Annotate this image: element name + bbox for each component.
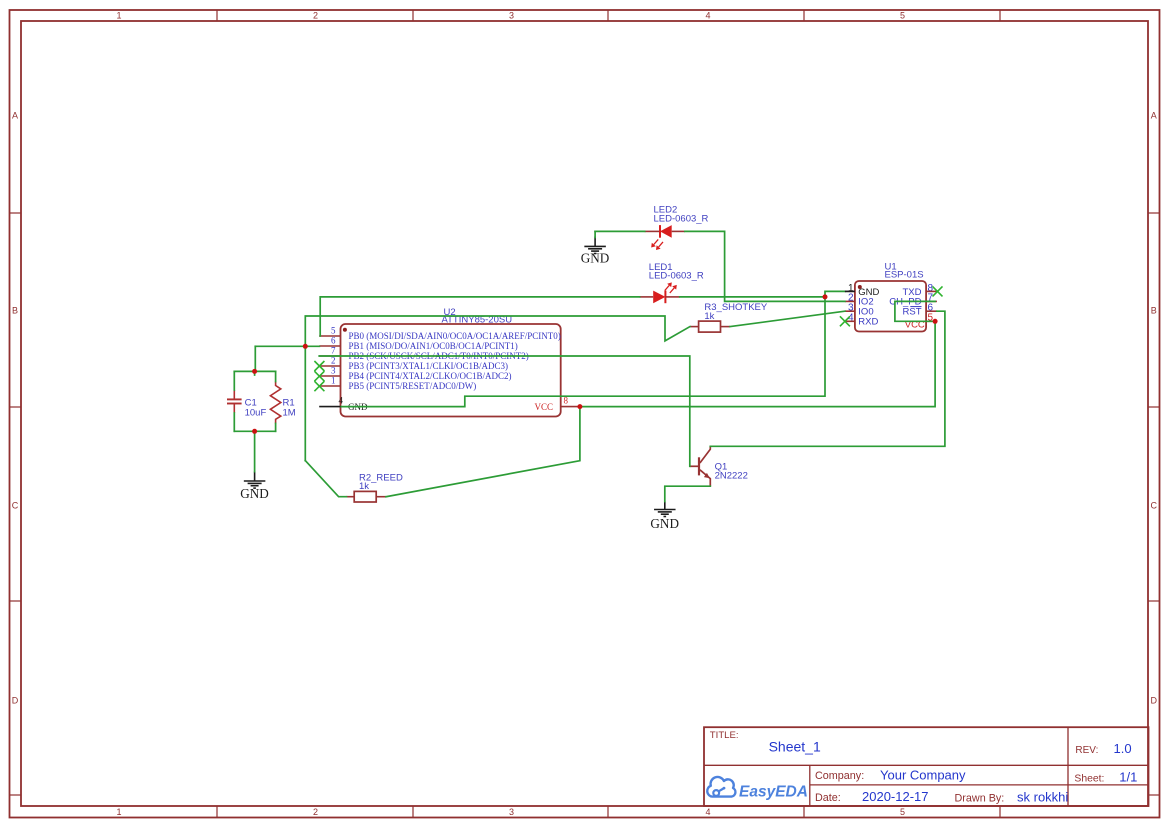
- svg-text:1: 1: [331, 375, 336, 385]
- svg-text:B: B: [12, 306, 18, 316]
- svg-text:PB0 (MOSI/DI/SDA/AIN0/OC0A/OC1: PB0 (MOSI/DI/SDA/AIN0/OC0A/OC1A/AREF/PCI…: [349, 331, 561, 341]
- svg-text:PB1 (MISO/DO/AIN1/OC0B/OC1A/PC: PB1 (MISO/DO/AIN1/OC0B/OC1A/PCINT1): [349, 341, 518, 351]
- svg-text:C: C: [1150, 501, 1157, 511]
- svg-text:REV:: REV:: [1075, 745, 1098, 756]
- svg-text:LED-0603_R: LED-0603_R: [649, 271, 704, 282]
- svg-text:D: D: [12, 696, 19, 706]
- svg-text:3: 3: [509, 11, 514, 21]
- svg-text:TITLE:: TITLE:: [710, 730, 739, 741]
- svg-text:Drawn By:: Drawn By:: [955, 792, 1005, 804]
- svg-text:LED-0603_R: LED-0603_R: [654, 213, 709, 224]
- svg-text:B: B: [1151, 306, 1157, 316]
- svg-text:2: 2: [313, 807, 318, 817]
- svg-text:PB4 (PCINT4/XTAL2/CLKO/OC1B/AD: PB4 (PCINT4/XTAL2/CLKO/OC1B/ADC2): [349, 371, 512, 381]
- svg-text:4: 4: [705, 11, 710, 21]
- svg-text:Your Company: Your Company: [880, 768, 966, 783]
- svg-text:1k: 1k: [359, 481, 369, 492]
- svg-text:PB3 (PCINT3/XTAL1/CLKI/OC1B/AD: PB3 (PCINT3/XTAL1/CLKI/OC1B/ADC3): [349, 361, 509, 371]
- svg-text:1M: 1M: [283, 408, 296, 419]
- svg-text:2020-12-17: 2020-12-17: [862, 789, 929, 804]
- svg-text:Date:: Date:: [815, 792, 841, 804]
- svg-text:5: 5: [900, 807, 905, 817]
- svg-text:3: 3: [331, 365, 336, 375]
- svg-text:Sheet_1: Sheet_1: [769, 739, 821, 755]
- svg-text:sk rokkhi: sk rokkhi: [1017, 790, 1068, 805]
- svg-text:GND: GND: [581, 251, 610, 266]
- svg-text:Sheet:: Sheet:: [1074, 774, 1104, 785]
- svg-text:GND: GND: [650, 516, 679, 531]
- svg-text:A: A: [12, 111, 18, 121]
- svg-text:1: 1: [116, 807, 121, 817]
- svg-text:10uF: 10uF: [245, 408, 267, 419]
- svg-text:1k: 1k: [704, 311, 714, 322]
- svg-text:1.0: 1.0: [1114, 741, 1132, 756]
- svg-text:5: 5: [900, 11, 905, 21]
- svg-text:RXD: RXD: [858, 317, 878, 328]
- svg-text:5: 5: [331, 325, 336, 335]
- svg-text:7: 7: [331, 345, 336, 355]
- svg-text:2: 2: [313, 11, 318, 21]
- svg-text:6: 6: [331, 335, 336, 345]
- svg-text:A: A: [1151, 111, 1157, 121]
- svg-text:RST: RST: [903, 307, 922, 318]
- svg-text:Company:: Company:: [815, 770, 864, 782]
- svg-text:2N2222: 2N2222: [715, 470, 748, 481]
- svg-text:1/1: 1/1: [1119, 770, 1137, 785]
- svg-text:4: 4: [339, 395, 344, 405]
- svg-text:C: C: [12, 501, 19, 511]
- svg-text:1: 1: [116, 11, 121, 21]
- svg-text:EasyEDA: EasyEDA: [739, 783, 808, 800]
- svg-text:3: 3: [509, 807, 514, 817]
- svg-text:2: 2: [331, 355, 336, 365]
- svg-text:VCC: VCC: [534, 402, 553, 412]
- svg-text:PB5 (PCINT5/RESET/ADC0/DW): PB5 (PCINT5/RESET/ADC0/DW): [349, 381, 477, 391]
- svg-text:4: 4: [705, 807, 710, 817]
- svg-text:ESP-01S: ESP-01S: [885, 269, 924, 280]
- svg-text:D: D: [1150, 696, 1157, 706]
- svg-text:GND: GND: [240, 486, 269, 501]
